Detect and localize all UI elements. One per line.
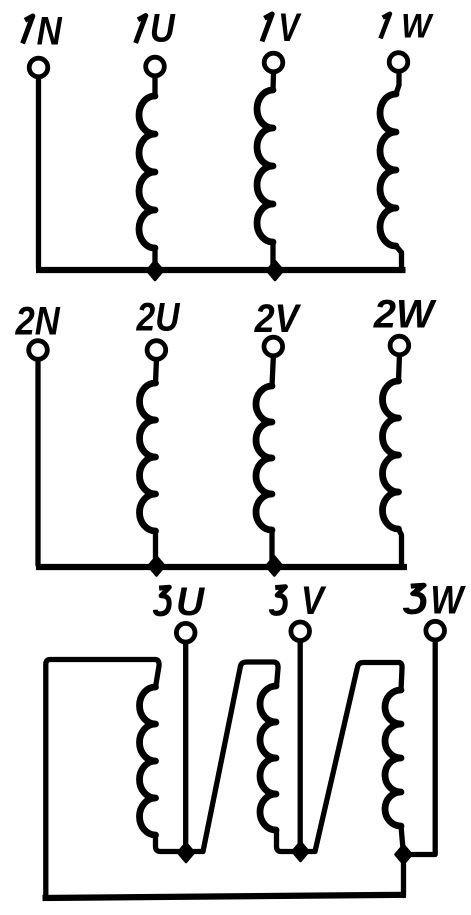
- label 2W: [373, 293, 437, 337]
- label 3U: [155, 587, 169, 614]
- wire top of winding L3: [399, 663, 402, 691]
- terminal 3W: [426, 621, 445, 640]
- wire delta left side: [46, 660, 156, 898]
- wire bottom of winding L1: [156, 835, 187, 852]
- terminal 3U: [176, 623, 195, 642]
- wire 2V stub top: [272, 358, 273, 387]
- wire 3V vertical: [298, 643, 303, 852]
- wire top of winding L2: [274, 662, 278, 686]
- label 1U: [136, 16, 146, 44]
- junction dot 3U: [178, 843, 194, 862]
- bus delta bottom: [43, 895, 407, 898]
- wire 1U stub top: [152, 78, 157, 97]
- terminal 2V: [264, 337, 283, 356]
- wire diagonal L1-L2: [186, 662, 274, 852]
- terminal 1N: [29, 58, 48, 77]
- wire 2U stub bottom: [153, 531, 158, 565]
- svg-text:W: W: [430, 577, 466, 622]
- winding 1W: [380, 94, 396, 246]
- winding 1U: [139, 96, 155, 248]
- wire 1V stub top: [270, 74, 276, 91]
- wire 3W vertical and horizontal: [404, 642, 436, 855]
- wire 1N vertical: [36, 79, 41, 269]
- wire from junction down to bottom bus: [401, 855, 406, 896]
- bus neutral 1: [36, 267, 406, 273]
- svg-text:V: V: [301, 578, 327, 623]
- label 1V: [262, 14, 272, 42]
- junction dot 1V: [267, 261, 283, 280]
- junction dot 1U: [147, 261, 163, 280]
- label 2U: [136, 295, 181, 339]
- label 2V: [254, 297, 302, 341]
- wire top of winding L1: [156, 660, 160, 688]
- wire 2W stub bottom: [399, 529, 402, 564]
- winding L3: [385, 690, 401, 826]
- terminal 3V: [291, 622, 310, 641]
- junction dot L3/3W: [396, 845, 412, 864]
- svg-text:W: W: [401, 7, 434, 45]
- svg-text:2N: 2N: [15, 298, 61, 343]
- wire bottom of winding L2: [277, 830, 301, 852]
- label 2N: [15, 298, 61, 343]
- terminal 1W: [389, 53, 408, 72]
- wire 2N vertical: [35, 361, 40, 565]
- terminal 2U: [147, 341, 166, 360]
- winding 2V: [256, 386, 272, 530]
- svg-text:U: U: [150, 5, 176, 50]
- wire diagonal L2-L3: [301, 663, 400, 852]
- wire 1W stub top: [396, 73, 399, 94]
- winding L2: [260, 686, 276, 830]
- svg-text:2W: 2W: [373, 293, 437, 337]
- bus neutral 2: [36, 564, 407, 570]
- wire 1V stub bottom: [270, 242, 275, 268]
- wire 1U stub bottom: [152, 248, 157, 268]
- winding L1: [140, 687, 156, 835]
- winding 2W: [383, 381, 399, 529]
- svg-text:V: V: [278, 4, 302, 49]
- winding 2U: [140, 383, 156, 531]
- label 3W: [406, 585, 424, 612]
- wire 3U vertical: [183, 644, 188, 852]
- junction dot 2U: [149, 557, 165, 576]
- wire bottom of winding L3: [401, 826, 404, 855]
- junction dot 2V: [266, 557, 282, 576]
- wire 2W stub top: [396, 357, 402, 381]
- wire 1W stub bottom: [396, 246, 402, 268]
- terminal 2W: [390, 336, 409, 355]
- terminal 1V: [264, 53, 283, 72]
- label 3V: [271, 587, 285, 614]
- junction dot 3V: [293, 842, 309, 861]
- label 1N: [23, 16, 33, 44]
- svg-text:2U: 2U: [136, 295, 181, 339]
- svg-text:2V: 2V: [254, 297, 302, 341]
- label 1W: [381, 14, 390, 39]
- terminal 2N: [29, 341, 48, 360]
- wire 2U stub top: [153, 361, 159, 383]
- svg-text:U: U: [176, 580, 206, 625]
- svg-text:N: N: [37, 8, 63, 53]
- terminal 1U: [146, 57, 165, 76]
- wire 2V stub bottom: [269, 530, 274, 565]
- winding 1V: [257, 90, 273, 242]
